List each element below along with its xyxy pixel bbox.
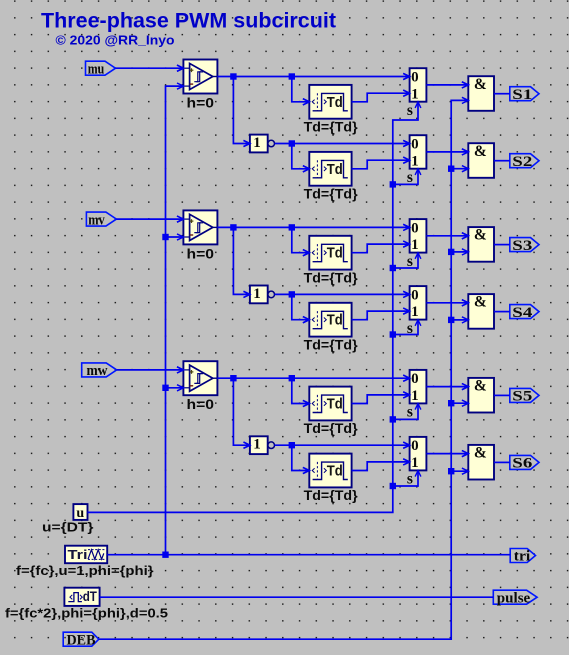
multiplexer MUX3 — [403, 219, 426, 253]
input port mv — [86, 212, 116, 228]
svg-text:f={fc},u=1,phi={phi}: f={fc},u=1,phi={phi} — [16, 564, 154, 578]
wire select to MUX3 s pin — [393, 253, 421, 268]
NOT gate inverter Y1 — [244, 135, 275, 153]
node junction DEB bus row 5 — [448, 400, 454, 406]
wire dT source to pulse port — [100, 596, 494, 598]
node junction select bus row 2 — [390, 181, 396, 187]
wire to NOT gate Y3 — [233, 378, 250, 448]
svg-text:1: 1 — [411, 304, 419, 320]
wire DEB enable bus — [99, 100, 469, 639]
node junction DEB bus row 4 — [448, 317, 454, 323]
label s (select pin) of MUX2 — [407, 169, 413, 186]
wire Tri source to tri port — [107, 554, 510, 556]
svg-text:s: s — [407, 404, 413, 421]
node junction row 6 to delay Td6 — [289, 442, 295, 448]
svg-text:1: 1 — [253, 286, 261, 302]
op-amp comparator U1 — [177, 60, 217, 94]
svg-text:S2: S2 — [512, 154, 532, 170]
output port S4 — [510, 305, 539, 321]
output port S3 — [510, 238, 539, 254]
node junction DEB bus row 3 — [448, 249, 454, 255]
label Td={Td} for Td2 — [304, 186, 359, 202]
wire NOT gate Y1 output row — [275, 140, 410, 146]
title text — [41, 9, 336, 47]
label Td={Td} for Td3 — [304, 269, 359, 285]
wire comparator U3 output row (phase W) — [217, 375, 409, 381]
wire AND gate G3 output to port S3 — [494, 244, 510, 246]
svg-text:1: 1 — [411, 86, 419, 102]
node junction DEB bus row 2 — [448, 166, 454, 172]
svg-text:Td={Td}: Td={Td} — [304, 336, 359, 352]
svg-text:f={fc*2},phi={phi},d=0.5: f={fc*2},phi={phi},d=0.5 — [5, 607, 168, 621]
svg-text:Td={Td}: Td={Td} — [304, 487, 359, 503]
wire Td4 output to MUX4 input 1 — [352, 308, 410, 320]
wire Td2 output to MUX2 input 1 — [352, 157, 410, 169]
svg-text:Td={Td}: Td={Td} — [304, 119, 359, 135]
label s (select pin) of MUX4 — [407, 320, 413, 337]
op-amp comparator U3 — [177, 361, 217, 395]
wire comparator U1 output row (phase U) — [217, 73, 409, 79]
wire MUX4 output to AND gate G4 — [426, 300, 468, 306]
svg-text:&: & — [474, 294, 487, 311]
svg-text:Td: Td — [327, 464, 343, 480]
wire to NOT gate Y1 — [233, 77, 250, 147]
wire NOT gate Y2 output row — [275, 291, 410, 297]
wire Tri bus stub to comparator U2 — [166, 236, 184, 238]
wire mu to comparator — [116, 65, 184, 71]
output port S5 — [510, 388, 539, 404]
wire MUX5 output to AND gate G5 — [426, 384, 468, 390]
multiplexer MUX1 — [403, 68, 426, 102]
svg-text:u={DT}: u={DT} — [42, 520, 94, 535]
svg-text:Td: Td — [327, 95, 343, 111]
svg-text:Td={Td}: Td={Td} — [304, 269, 359, 285]
wire select bus from u source — [88, 102, 421, 513]
wire DEB to AND gate G4 — [451, 319, 468, 321]
svg-text:Td: Td — [327, 397, 343, 413]
svg-text:h=0: h=0 — [187, 245, 215, 261]
svg-text:1: 1 — [411, 388, 419, 404]
delay element Td1 — [303, 85, 352, 119]
output port pulse — [493, 590, 537, 606]
label f={fc},u=1,phi={phi} — [16, 564, 154, 578]
svg-text:S4: S4 — [512, 305, 532, 321]
node junction row 2 to delay Td2 — [289, 140, 295, 146]
node junction row 3 to delay Td3 — [289, 224, 295, 230]
AND gate G3 — [462, 227, 494, 262]
svg-text:1: 1 — [411, 153, 419, 169]
svg-text:&: & — [474, 445, 487, 462]
svg-text:0: 0 — [411, 287, 419, 303]
svg-text:1: 1 — [253, 135, 261, 151]
svg-text:h=0: h=0 — [187, 396, 215, 412]
svg-text:S3: S3 — [512, 238, 532, 254]
label h=0 for U3 — [187, 396, 215, 412]
wire DEB to AND gate G3 — [451, 251, 468, 253]
label s (select pin) of MUX5 — [407, 404, 413, 421]
node junction row 4 to delay Td4 — [289, 291, 295, 297]
output port S2 — [510, 154, 539, 170]
svg-text:Tri: Tri — [68, 548, 88, 562]
node junction select bus row 6 — [390, 483, 396, 489]
wire DEB to AND gate G6 — [451, 470, 468, 472]
svg-text:0: 0 — [411, 220, 419, 236]
input port mw — [82, 363, 117, 379]
delay element Td5 — [303, 387, 352, 421]
wire select to MUX2 s pin — [393, 169, 421, 185]
svg-text:tri: tri — [514, 549, 531, 565]
wire down into Td2 — [292, 144, 310, 172]
AND gate G5 — [462, 378, 494, 413]
delay element Td2 — [303, 152, 352, 186]
wire mw to comparator — [117, 367, 184, 373]
AND gate G6 — [462, 445, 494, 480]
wire mv to comparator — [116, 216, 183, 222]
wire Td5 output to MUX5 input 1 — [352, 392, 410, 404]
node junction comparator U2 out to inverter — [230, 224, 236, 230]
output port tri — [510, 549, 535, 565]
svg-text:1: 1 — [411, 237, 419, 253]
svg-text:0: 0 — [411, 70, 419, 86]
label u={DT} — [42, 520, 94, 535]
svg-text:&: & — [474, 143, 487, 160]
node junction Tri bus at comparator U3 — [162, 385, 168, 391]
svg-text:1: 1 — [253, 437, 261, 453]
multiplexer MUX6 — [403, 437, 426, 471]
svg-text:0: 0 — [411, 137, 419, 153]
wire DEB to AND gate G2 — [451, 168, 468, 170]
wire down into Td5 — [292, 378, 310, 406]
wire Td3 output to MUX3 input 1 — [352, 241, 410, 253]
op-amp comparator U2 — [177, 210, 217, 244]
wire NOT gate Y3 output row — [275, 442, 410, 448]
wire select to MUX4 s pin — [393, 320, 421, 335]
multiplexer MUX5 — [403, 370, 426, 404]
node junction Tri bus tap — [162, 552, 168, 558]
svg-text:&: & — [474, 227, 487, 244]
wire AND gate G6 output to port S6 — [494, 461, 510, 463]
svg-text:Td: Td — [327, 246, 343, 262]
label Td={Td} for Td4 — [304, 336, 359, 352]
svg-text:&: & — [474, 76, 487, 93]
delay element Td6 — [303, 454, 352, 488]
svg-text:dT: dT — [83, 589, 98, 604]
svg-text:Td={Td}: Td={Td} — [304, 420, 359, 436]
wire MUX2 output to AND gate G2 — [426, 149, 468, 155]
pulse source dT — [64, 588, 99, 606]
wire down into Td1 — [292, 77, 310, 105]
svg-text:S1: S1 — [512, 87, 532, 103]
node junction row 5 to delay Td5 — [289, 375, 295, 381]
label f={fc*2},phi={phi},d=0.5 — [5, 607, 168, 621]
multiplexer MUX2 — [403, 135, 426, 169]
wire AND gate G4 output to port S4 — [494, 311, 510, 313]
svg-text:0: 0 — [411, 371, 419, 387]
node junction select bus row 4 — [390, 331, 396, 337]
wire Td1 output to MUX1 input 1 — [352, 90, 410, 102]
wire select to MUX5 s pin — [393, 404, 421, 420]
svg-text:Td={Td}: Td={Td} — [304, 186, 359, 202]
node junction Tri bus at comparator U2 — [162, 234, 168, 240]
wire DEB to AND gate G5 — [451, 402, 468, 404]
triangle wave source Tri — [65, 546, 107, 564]
wire AND gate G1 output to port S1 — [494, 93, 510, 95]
AND gate G4 — [462, 294, 494, 329]
wire to NOT gate Y2 — [233, 227, 250, 297]
label Td={Td} for Td6 — [304, 487, 359, 503]
wire select to MUX6 s pin — [393, 471, 421, 486]
node junction select bus row 3 — [390, 265, 396, 271]
NOT gate inverter Y3 — [244, 436, 275, 454]
label h=0 for U2 — [187, 245, 215, 261]
wire comparator U2 output row (phase V) — [217, 224, 409, 230]
node junction select bus row 5 — [390, 416, 396, 422]
AND gate G1 — [462, 76, 494, 111]
svg-text:mv: mv — [88, 212, 105, 228]
wire down into Td3 — [292, 227, 310, 255]
label s (select pin) of MUX6 — [407, 471, 413, 488]
wire MUX1 output to AND gate G1 — [426, 82, 468, 88]
AND gate G2 — [462, 143, 494, 178]
node junction comparator U3 out to inverter — [230, 375, 236, 381]
output port S6 — [510, 455, 539, 471]
wire MUX3 output to AND gate G3 — [426, 233, 468, 239]
label s (select pin) of MUX1 — [407, 102, 413, 119]
svg-text:Td: Td — [327, 313, 343, 329]
node junction DEB bus row 6 — [448, 468, 454, 474]
constant source u (u={DT}) — [73, 504, 87, 521]
input port DEB — [63, 632, 99, 648]
svg-text:h=0: h=0 — [187, 95, 215, 111]
wire down into Td4 — [292, 294, 310, 322]
svg-text:Td: Td — [327, 162, 343, 178]
delay element Td3 — [303, 236, 352, 270]
node junction comparator U1 out to inverter — [230, 73, 236, 79]
label Td={Td} for Td1 — [304, 119, 359, 135]
svg-text:© 2020 @RR_Inyo: © 2020 @RR_Inyo — [56, 33, 175, 48]
label h=0 for U1 — [187, 95, 215, 111]
wire Tri bus stub to comparator U3 — [166, 387, 184, 389]
wire Td6 output to MUX6 input 1 — [352, 459, 410, 471]
wire MUX6 output to AND gate G6 — [426, 451, 468, 457]
wire AND gate G2 output to port S2 — [494, 160, 510, 162]
NOT gate inverter Y2 — [244, 286, 275, 304]
svg-text:0: 0 — [411, 438, 419, 454]
svg-text:S5: S5 — [512, 389, 532, 405]
svg-text:pulse: pulse — [497, 590, 531, 606]
svg-text:s: s — [407, 102, 413, 119]
svg-text:1: 1 — [411, 455, 419, 471]
node junction row 1 to delay Td1 — [289, 73, 295, 79]
input port mu — [86, 61, 116, 77]
output port S1 — [510, 87, 539, 103]
multiplexer MUX4 — [403, 286, 426, 320]
wire Tri bus to comparator minus inputs — [166, 86, 184, 555]
svg-text:mw: mw — [87, 363, 108, 379]
svg-text:&: & — [474, 378, 487, 395]
wire AND gate G5 output to port S5 — [494, 394, 510, 396]
wire down into Td6 — [292, 445, 310, 473]
delay element Td4 — [303, 303, 352, 337]
svg-text:Three-phase PWM subcircuit: Three-phase PWM subcircuit — [41, 9, 336, 32]
label s (select pin) of MUX3 — [407, 253, 413, 270]
svg-text:s: s — [407, 169, 413, 186]
svg-text:S6: S6 — [512, 456, 532, 472]
svg-text:DEB: DEB — [67, 632, 96, 648]
svg-text:mu: mu — [88, 61, 105, 77]
label Td={Td} for Td5 — [304, 420, 359, 436]
